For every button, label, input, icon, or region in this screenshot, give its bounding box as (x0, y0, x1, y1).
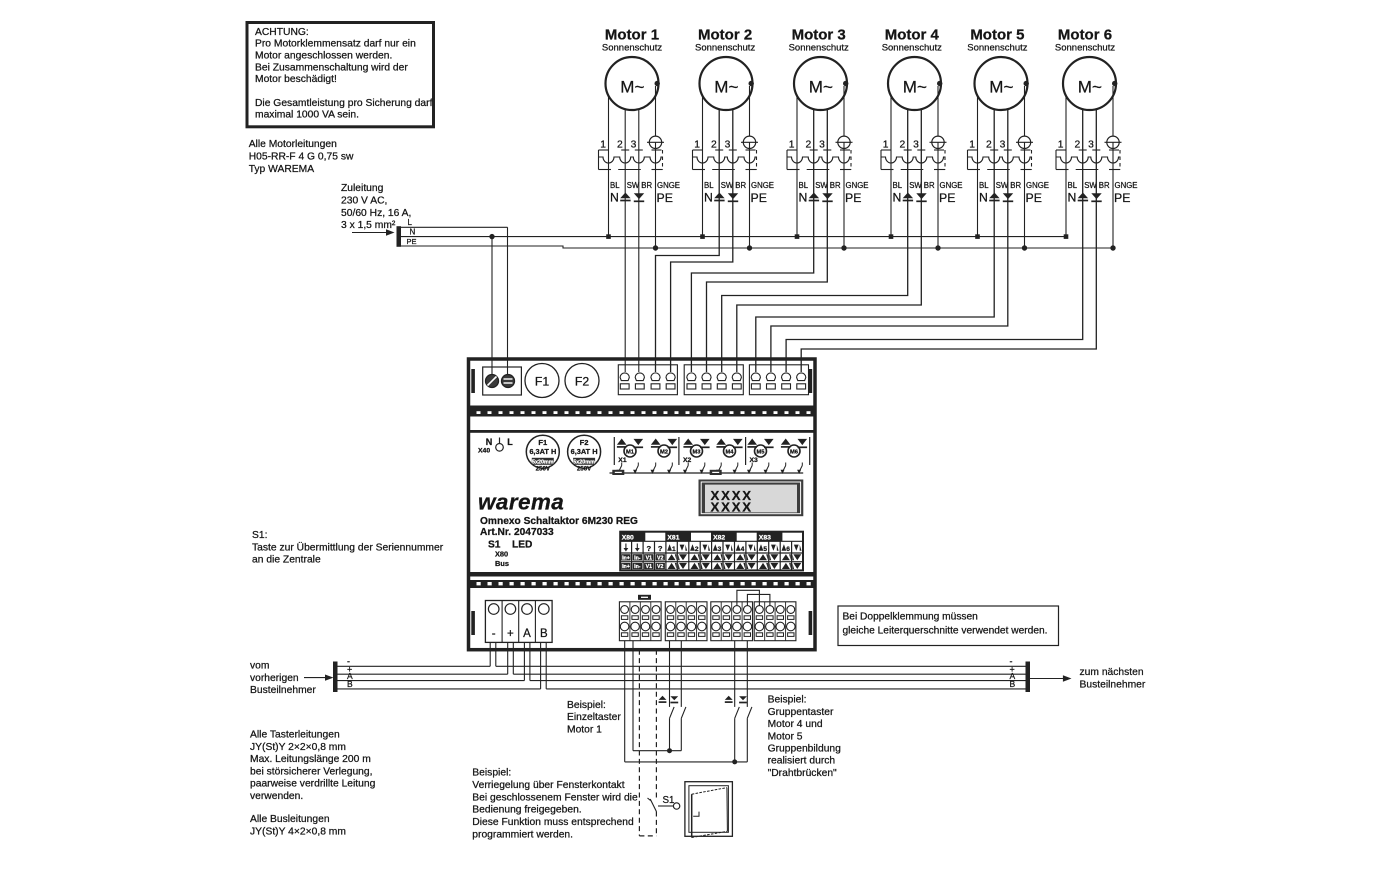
svg-text:N: N (893, 191, 902, 205)
svg-text:V1: V1 (646, 564, 652, 570)
svg-text:Motor angeschlossen werden.: Motor angeschlossen werden. (255, 51, 392, 62)
svg-text:GNGE: GNGE (1115, 181, 1138, 190)
svg-text:Die Gesamtleistung pro Sicheru: Die Gesamtleistung pro Sicherung darf (255, 98, 433, 109)
svg-text:2: 2 (986, 140, 992, 151)
svg-text:A: A (523, 628, 531, 640)
svg-text:X40: X40 (478, 448, 490, 455)
svg-text:BL: BL (704, 181, 714, 190)
svg-text:BR: BR (735, 181, 746, 190)
svg-text:PE: PE (407, 237, 417, 246)
svg-text:6,3AT H: 6,3AT H (571, 447, 598, 456)
svg-text:Art.Nr. 2047033: Art.Nr. 2047033 (480, 527, 554, 538)
svg-text:M3: M3 (692, 449, 701, 455)
svg-text:Bei Zusammenschaltung wird der: Bei Zusammenschaltung wird der (255, 62, 408, 73)
svg-text:X2: X2 (683, 457, 692, 464)
svg-text:SW: SW (909, 181, 922, 190)
svg-text:2: 2 (1074, 140, 1080, 151)
svg-text:M2: M2 (660, 449, 668, 455)
svg-text:vorherigen: vorherigen (250, 673, 299, 684)
svg-text:-: - (492, 628, 496, 640)
svg-text:Motor 5: Motor 5 (768, 731, 803, 742)
svg-text:Busteilnehmer: Busteilnehmer (1080, 680, 1146, 691)
svg-text:SW: SW (815, 181, 828, 190)
svg-text:programmiert werden.: programmiert werden. (472, 830, 573, 841)
svg-text:In-: In- (634, 555, 641, 561)
svg-text:Diese Funktion muss entspreche: Diese Funktion muss entsprechend (472, 817, 634, 828)
svg-text:B: B (540, 628, 548, 640)
svg-text:GNGE: GNGE (846, 181, 869, 190)
svg-text:1: 1 (789, 140, 795, 151)
svg-text:Sonnenschutz: Sonnenschutz (1055, 43, 1115, 54)
svg-text:ACHTUNG:: ACHTUNG: (255, 27, 309, 38)
svg-text:3: 3 (913, 140, 919, 151)
svg-text:+: + (507, 628, 514, 640)
svg-text:Busteilnehmer: Busteilnehmer (250, 685, 316, 696)
svg-text:3: 3 (725, 140, 731, 151)
svg-text:M5: M5 (756, 449, 765, 455)
svg-text:Alle Tasterleitungen: Alle Tasterleitungen (250, 730, 340, 741)
svg-text:Sonnenschutz: Sonnenschutz (789, 43, 849, 54)
svg-text:Gruppentaster: Gruppentaster (768, 707, 834, 718)
svg-text:N: N (1068, 191, 1077, 205)
svg-text:Sonnenschutz: Sonnenschutz (882, 43, 942, 54)
svg-text:Motor beschädigt!: Motor beschädigt! (255, 74, 337, 85)
svg-text:GNGE: GNGE (940, 181, 963, 190)
svg-text:5: 5 (763, 546, 767, 553)
svg-text:BL: BL (610, 181, 620, 190)
svg-text:GNGE: GNGE (1026, 181, 1049, 190)
svg-text:S1:: S1: (252, 530, 267, 541)
svg-text:Motor 4 und: Motor 4 und (768, 719, 823, 730)
svg-text:N: N (610, 191, 619, 205)
svg-text:H05-RR-F 4 G 0,75 sw: H05-RR-F 4 G 0,75 sw (249, 152, 354, 163)
svg-text:B: B (347, 679, 353, 689)
svg-text:Alle Busleitungen: Alle Busleitungen (250, 814, 330, 825)
svg-text:250V: 250V (536, 465, 551, 472)
svg-text:V2: V2 (657, 555, 663, 561)
svg-text:Alle Motorleitungen: Alle Motorleitungen (249, 139, 337, 150)
svg-text:Motor 1: Motor 1 (567, 724, 602, 735)
svg-text:Sonnenschutz: Sonnenschutz (695, 43, 755, 54)
svg-text:L: L (408, 218, 413, 227)
svg-text:SW: SW (721, 181, 734, 190)
svg-text:1: 1 (672, 546, 676, 553)
svg-text:X80: X80 (495, 550, 508, 559)
svg-text:"Drahtbrücken": "Drahtbrücken" (768, 768, 837, 779)
svg-text:3 x 1,5 mm²: 3 x 1,5 mm² (341, 220, 396, 231)
svg-text:GNGE: GNGE (657, 181, 680, 190)
svg-text:PE: PE (657, 191, 673, 205)
svg-text:3: 3 (631, 140, 637, 151)
svg-text:Beispiel:: Beispiel: (567, 700, 606, 711)
svg-text:?: ? (658, 544, 663, 553)
svg-text:GNGE: GNGE (751, 181, 774, 190)
svg-text:2: 2 (805, 140, 811, 151)
svg-text:B: B (1010, 679, 1016, 689)
svg-text:Pro Motorklemmensatz darf nur: Pro Motorklemmensatz darf nur ein (255, 39, 416, 50)
svg-text:JY(St)Y 2×2×0,8 mm: JY(St)Y 2×2×0,8 mm (250, 742, 346, 753)
svg-text:2: 2 (617, 140, 623, 151)
svg-text:In-: In- (634, 564, 641, 570)
svg-text:M~: M~ (620, 78, 644, 97)
svg-text:F1: F1 (538, 438, 548, 447)
svg-text:Bei geschlossenem Fenster wird: Bei geschlossenem Fenster wird die (472, 792, 638, 803)
svg-text:BR: BR (641, 181, 652, 190)
svg-text:3: 3 (718, 546, 722, 553)
svg-text:1: 1 (883, 140, 889, 151)
svg-text:M~: M~ (903, 78, 927, 97)
svg-text:SW: SW (627, 181, 640, 190)
svg-text:Einzeltaster: Einzeltaster (567, 712, 621, 723)
svg-text:X3: X3 (750, 457, 759, 464)
svg-text:M6: M6 (790, 449, 799, 455)
svg-text:S1: S1 (663, 795, 675, 806)
svg-text:SW: SW (1084, 181, 1097, 190)
svg-text:N: N (979, 191, 988, 205)
svg-text:X80: X80 (622, 534, 634, 541)
svg-text:paarweise verdrillte Leitung: paarweise verdrillte Leitung (250, 779, 376, 790)
svg-text:BR: BR (924, 181, 935, 190)
svg-text:F1: F1 (535, 375, 550, 389)
svg-text:X82: X82 (713, 534, 725, 541)
svg-text:1: 1 (969, 140, 975, 151)
svg-text:M1: M1 (626, 449, 635, 455)
svg-text:N: N (704, 191, 713, 205)
svg-text:250V: 250V (577, 465, 592, 472)
svg-text:BR: BR (1010, 181, 1021, 190)
svg-text:Bei Doppelklemmung müssen: Bei Doppelklemmung müssen (843, 611, 978, 622)
svg-text:bei störsicherer Verlegung,: bei störsicherer Verlegung, (250, 766, 373, 777)
svg-text:PE: PE (751, 191, 767, 205)
svg-text:X1: X1 (618, 457, 627, 464)
svg-text:Gruppenbildung: Gruppenbildung (768, 744, 842, 755)
svg-text:1: 1 (694, 140, 700, 151)
svg-text:M~: M~ (714, 78, 738, 97)
svg-text:PE: PE (845, 191, 861, 205)
svg-text:F2: F2 (575, 375, 590, 389)
svg-text:zum nächsten: zum nächsten (1080, 667, 1144, 678)
svg-text:PE: PE (1114, 191, 1130, 205)
svg-text:BL: BL (1068, 181, 1078, 190)
svg-text:Sonnenschutz: Sonnenschutz (602, 43, 662, 54)
svg-text:PE: PE (939, 191, 955, 205)
svg-text:N: N (486, 437, 493, 447)
svg-text:Motor 3: Motor 3 (792, 27, 846, 44)
svg-text:?: ? (646, 544, 651, 553)
svg-text:BR: BR (1099, 181, 1110, 190)
svg-text:6,3AT H: 6,3AT H (529, 447, 556, 456)
svg-text:Motor 2: Motor 2 (698, 27, 752, 44)
svg-text:6: 6 (786, 546, 790, 553)
svg-text:warema: warema (478, 490, 564, 515)
svg-text:PE: PE (1026, 191, 1042, 205)
svg-text:X81: X81 (667, 534, 679, 541)
svg-text:Beispiel:: Beispiel: (768, 695, 807, 706)
svg-text:N: N (799, 191, 808, 205)
svg-text:Bus: Bus (495, 559, 509, 568)
svg-text:Bedienung freigegeben.: Bedienung freigegeben. (472, 805, 581, 816)
svg-text:230 V AC,: 230 V AC, (341, 195, 387, 206)
svg-text:JY(St)Y 4×2×0,8 mm: JY(St)Y 4×2×0,8 mm (250, 826, 346, 837)
svg-text:M~: M~ (809, 78, 833, 97)
svg-text:Zuleitung: Zuleitung (341, 183, 384, 194)
svg-text:In+: In+ (622, 564, 630, 570)
svg-text:XXXX: XXXX (711, 500, 753, 515)
svg-text:2: 2 (711, 140, 717, 151)
svg-text:SW: SW (996, 181, 1009, 190)
svg-text:1: 1 (1058, 140, 1064, 151)
svg-text:3: 3 (1088, 140, 1094, 151)
svg-text:maximal 1000 VA sein.: maximal 1000 VA sein. (255, 110, 359, 121)
svg-text:N: N (410, 227, 416, 236)
svg-text:50/60 Hz, 16 A,: 50/60 Hz, 16 A, (341, 208, 411, 219)
svg-text:L: L (507, 437, 513, 447)
svg-text:1: 1 (600, 140, 606, 151)
svg-text:BR: BR (830, 181, 841, 190)
svg-text:Motor 5: Motor 5 (970, 27, 1024, 44)
svg-text:Motor 6: Motor 6 (1058, 27, 1112, 44)
svg-text:realisiert durch: realisiert durch (768, 756, 836, 767)
svg-text:X83: X83 (759, 534, 771, 541)
svg-text:Verriegelung über Fensterkonta: Verriegelung über Fensterkontakt (472, 780, 624, 791)
svg-text:V2: V2 (657, 564, 663, 570)
svg-text:M4: M4 (725, 449, 734, 455)
svg-text:2: 2 (899, 140, 905, 151)
svg-text:LED: LED (512, 540, 532, 551)
svg-text:BL: BL (979, 181, 989, 190)
svg-text:V1: V1 (646, 555, 652, 561)
svg-text:gleiche Leiterquerschnitte ver: gleiche Leiterquerschnitte verwendet wer… (843, 625, 1048, 636)
svg-text:3: 3 (819, 140, 825, 151)
svg-text:verwenden.: verwenden. (250, 791, 303, 802)
svg-text:BL: BL (893, 181, 903, 190)
svg-text:Beispiel:: Beispiel: (472, 768, 511, 779)
svg-text:Omnexo Schaltaktor 6M230 REG: Omnexo Schaltaktor 6M230 REG (480, 516, 638, 527)
svg-text:vom: vom (250, 661, 269, 672)
svg-text:M~: M~ (1078, 78, 1102, 97)
svg-text:M~: M~ (989, 78, 1013, 97)
svg-text:Sonnenschutz: Sonnenschutz (967, 43, 1027, 54)
svg-text:BL: BL (799, 181, 809, 190)
svg-text:Max. Leitungslänge 200 m: Max. Leitungslänge 200 m (250, 754, 371, 765)
svg-text:Motor 4: Motor 4 (885, 27, 940, 44)
svg-text:Motor 1: Motor 1 (605, 27, 659, 44)
svg-text:an die Zentrale: an die Zentrale (252, 555, 321, 566)
svg-text:Typ WAREMA: Typ WAREMA (249, 164, 315, 175)
svg-text:3: 3 (1000, 140, 1006, 151)
svg-text:Taste zur Übermittlung der Ser: Taste zur Übermittlung der Seriennummer (252, 541, 444, 553)
svg-text:In+: In+ (622, 555, 630, 561)
svg-text:F2: F2 (580, 438, 589, 447)
svg-text:4: 4 (741, 546, 745, 553)
svg-text:2: 2 (695, 546, 699, 553)
